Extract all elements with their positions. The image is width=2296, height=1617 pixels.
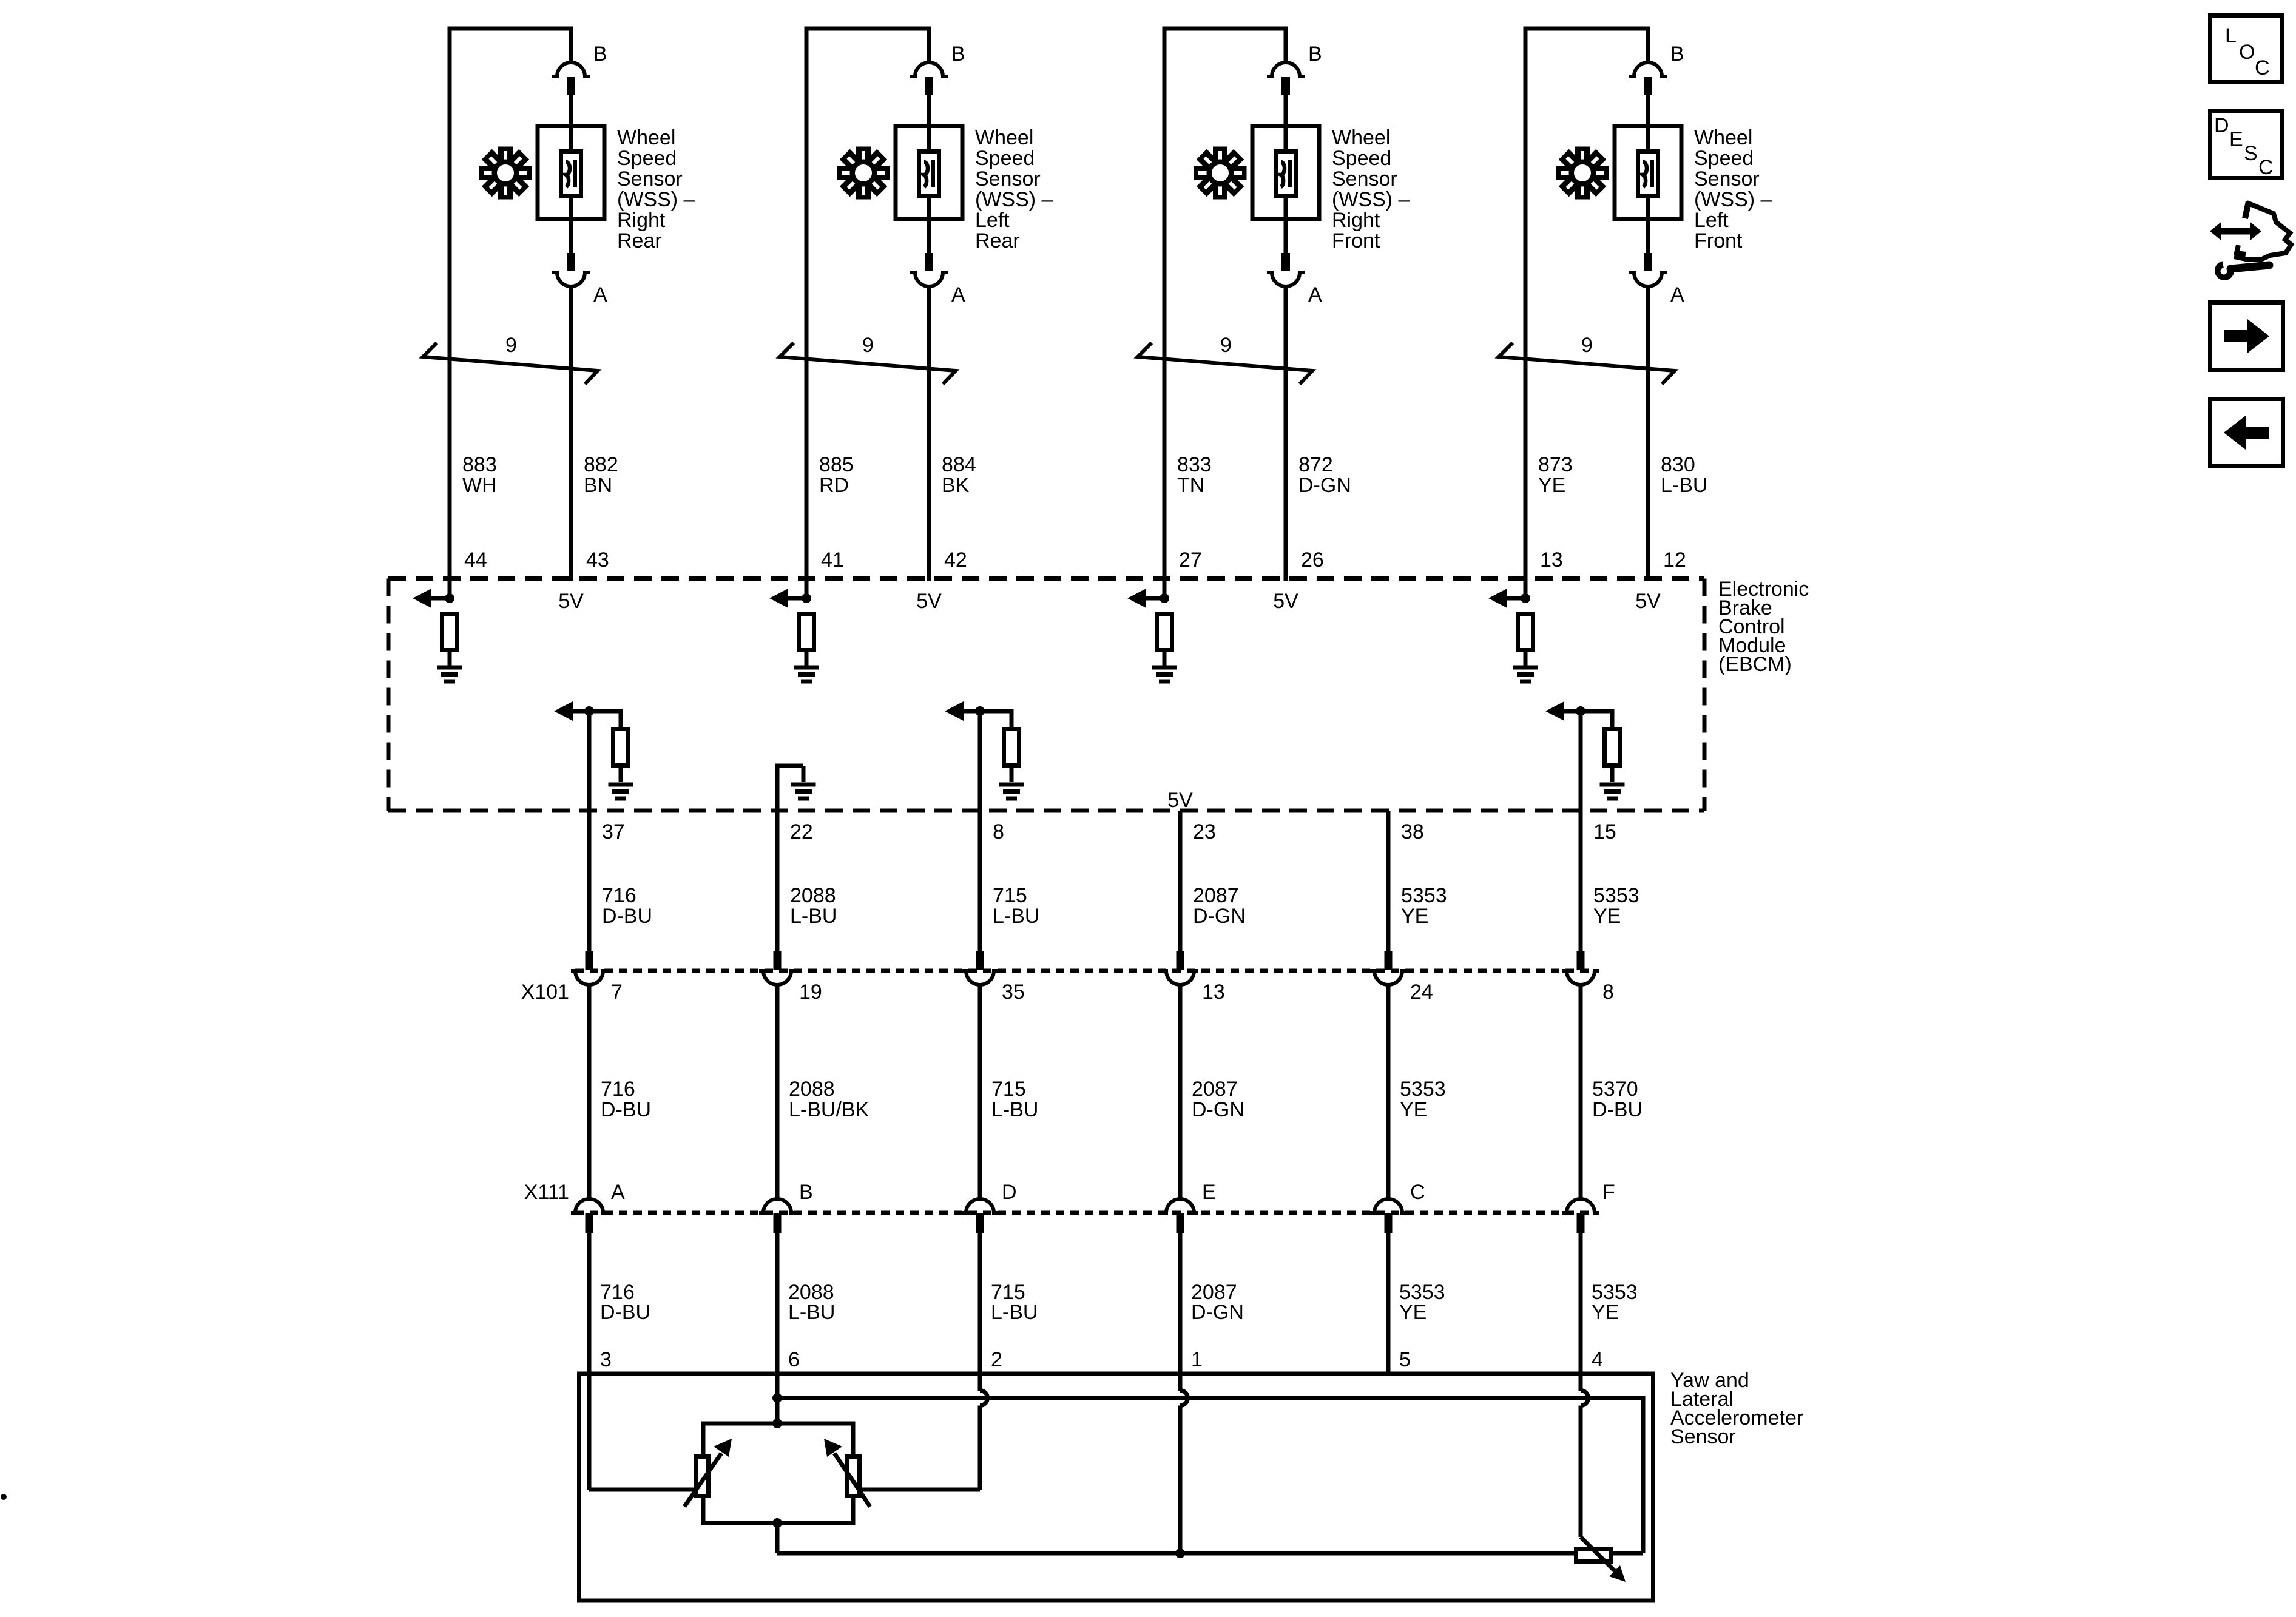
svg-text:B: B (1308, 42, 1322, 66)
svg-text:27: 27 (1179, 549, 1202, 572)
svg-text:D-GN: D-GN (1192, 1098, 1244, 1121)
svg-text:Sensor: Sensor (617, 167, 683, 191)
svg-text:873: 873 (1538, 453, 1573, 476)
svg-text:D: D (2214, 114, 2229, 137)
svg-text:5V: 5V (1273, 590, 1298, 613)
svg-text:1: 1 (1191, 1348, 1203, 1371)
svg-text:882: 882 (584, 453, 618, 476)
svg-text:9: 9 (1220, 334, 1232, 357)
svg-text:TN: TN (1177, 474, 1204, 497)
svg-text:D-BU: D-BU (601, 1098, 651, 1121)
svg-text:Right: Right (1332, 209, 1380, 232)
svg-text:715: 715 (991, 1078, 1026, 1101)
svg-text:Front: Front (1332, 229, 1380, 252)
svg-text:43: 43 (586, 549, 609, 572)
svg-text:2087: 2087 (1193, 884, 1239, 907)
svg-text:(EBCM): (EBCM) (1718, 653, 1792, 676)
svg-text:Left: Left (975, 209, 1010, 232)
svg-text:885: 885 (819, 453, 854, 476)
svg-text:15: 15 (1593, 820, 1616, 843)
svg-text:L-BU: L-BU (991, 1301, 1038, 1324)
svg-text:13: 13 (1202, 981, 1225, 1004)
svg-text:883: 883 (462, 453, 497, 476)
svg-text:A: A (951, 283, 965, 306)
svg-text:BK: BK (942, 474, 970, 497)
svg-text:5: 5 (1399, 1348, 1411, 1371)
svg-text:(WSS) –: (WSS) – (1332, 188, 1410, 211)
svg-text:Sensor: Sensor (975, 167, 1041, 191)
svg-text:22: 22 (790, 820, 813, 843)
svg-text:715: 715 (993, 884, 1027, 907)
svg-text:RD: RD (819, 474, 849, 497)
svg-text:Sensor: Sensor (1694, 167, 1760, 191)
svg-text:YE: YE (1400, 1098, 1427, 1121)
svg-text:L: L (2225, 24, 2237, 47)
svg-text:26: 26 (1301, 549, 1324, 572)
svg-text:X101: X101 (521, 981, 569, 1004)
svg-text:Wheel: Wheel (975, 126, 1033, 149)
svg-text:Rear: Rear (617, 229, 662, 252)
svg-text:Wheel: Wheel (617, 126, 675, 149)
svg-text:12: 12 (1663, 549, 1686, 572)
svg-text:YE: YE (1399, 1301, 1427, 1324)
svg-text:WH: WH (462, 474, 497, 497)
svg-text:D-GN: D-GN (1298, 474, 1351, 497)
svg-text:L-BU: L-BU (788, 1301, 835, 1324)
svg-text:Sensor: Sensor (1670, 1425, 1736, 1448)
svg-text:L-BU: L-BU (1661, 474, 1707, 497)
svg-text:13: 13 (1540, 549, 1563, 572)
svg-text:O: O (2239, 41, 2255, 64)
svg-text:5353: 5353 (1400, 1078, 1446, 1101)
svg-text:Speed: Speed (617, 147, 677, 170)
svg-text:YE: YE (1592, 1301, 1619, 1324)
svg-text:5370: 5370 (1592, 1078, 1638, 1101)
svg-text:19: 19 (799, 981, 822, 1004)
svg-text:C: C (1410, 1181, 1425, 1204)
svg-text:23: 23 (1193, 820, 1216, 843)
svg-text:L-BU: L-BU (993, 905, 1039, 928)
svg-text:6: 6 (788, 1348, 800, 1371)
svg-text:F: F (1602, 1181, 1615, 1204)
svg-text:A: A (1308, 283, 1322, 306)
svg-text:E: E (1202, 1181, 1216, 1204)
svg-text:Sensor: Sensor (1332, 167, 1397, 191)
svg-text:716: 716 (601, 1078, 635, 1101)
svg-text:D: D (1002, 1181, 1017, 1204)
svg-text:4: 4 (1592, 1348, 1603, 1371)
svg-text:872: 872 (1298, 453, 1333, 476)
svg-text:2088: 2088 (790, 884, 836, 907)
svg-text:A: A (1670, 283, 1684, 306)
svg-text:D-GN: D-GN (1191, 1301, 1244, 1324)
svg-text:2: 2 (991, 1348, 1002, 1371)
svg-text:L-BU/BK: L-BU/BK (789, 1098, 869, 1121)
svg-text:YE: YE (1593, 905, 1621, 928)
svg-text:E: E (2229, 128, 2243, 151)
svg-text:YE: YE (1401, 905, 1428, 928)
svg-text:Left: Left (1694, 209, 1729, 232)
svg-text:Wheel: Wheel (1694, 126, 1752, 149)
svg-text:3: 3 (600, 1348, 612, 1371)
svg-text:Front: Front (1694, 229, 1743, 252)
svg-text:Speed: Speed (1332, 147, 1391, 170)
svg-text:884: 884 (942, 453, 976, 476)
svg-text:B: B (593, 42, 607, 66)
svg-text:42: 42 (944, 549, 967, 572)
svg-text:2088: 2088 (789, 1078, 835, 1101)
svg-text:833: 833 (1177, 453, 1212, 476)
svg-text:41: 41 (821, 549, 844, 572)
svg-text:8: 8 (1602, 981, 1614, 1004)
svg-text:BN: BN (584, 474, 612, 497)
svg-text:7: 7 (611, 981, 623, 1004)
svg-text:YE: YE (1538, 474, 1565, 497)
svg-text:D-BU: D-BU (600, 1301, 650, 1324)
svg-text:9: 9 (1581, 334, 1593, 357)
svg-text:44: 44 (464, 549, 487, 572)
svg-text:D-BU: D-BU (602, 905, 652, 928)
svg-text:B: B (951, 42, 965, 66)
svg-text:Speed: Speed (1694, 147, 1754, 170)
svg-text:24: 24 (1410, 981, 1433, 1004)
svg-text:L-BU: L-BU (790, 905, 837, 928)
svg-text:B: B (1670, 42, 1684, 66)
svg-text:5353: 5353 (1401, 884, 1447, 907)
svg-text:L-BU: L-BU (991, 1098, 1038, 1121)
svg-text:(WSS) –: (WSS) – (617, 188, 695, 211)
svg-text:Rear: Rear (975, 229, 1020, 252)
svg-text:D-BU: D-BU (1592, 1098, 1643, 1121)
svg-text:D-GN: D-GN (1193, 905, 1246, 928)
svg-text:Speed: Speed (975, 147, 1035, 170)
svg-text:A: A (611, 1181, 625, 1204)
svg-text:5V: 5V (1635, 590, 1661, 613)
svg-text:5V: 5V (916, 590, 942, 613)
svg-text:(WSS) –: (WSS) – (1694, 188, 1772, 211)
svg-text:5V: 5V (558, 590, 584, 613)
svg-text:S: S (2244, 142, 2258, 165)
svg-text:5V: 5V (1167, 789, 1193, 812)
svg-text:37: 37 (602, 820, 625, 843)
svg-text:830: 830 (1661, 453, 1695, 476)
svg-text:35: 35 (1002, 981, 1025, 1004)
svg-text:X111: X111 (524, 1181, 569, 1204)
svg-text:C: C (2258, 156, 2274, 179)
svg-text:Wheel: Wheel (1332, 126, 1390, 149)
svg-text:A: A (593, 283, 607, 306)
svg-text:B: B (799, 1181, 813, 1204)
svg-text:2087: 2087 (1192, 1078, 1238, 1101)
svg-text:8: 8 (993, 820, 1004, 843)
svg-text:5353: 5353 (1593, 884, 1639, 907)
svg-text:Right: Right (617, 209, 666, 232)
svg-text:716: 716 (602, 884, 636, 907)
svg-text:9: 9 (862, 334, 874, 357)
svg-text:(WSS) –: (WSS) – (975, 188, 1053, 211)
svg-text:9: 9 (505, 334, 517, 357)
svg-text:C: C (2255, 56, 2270, 79)
svg-text:38: 38 (1401, 820, 1424, 843)
